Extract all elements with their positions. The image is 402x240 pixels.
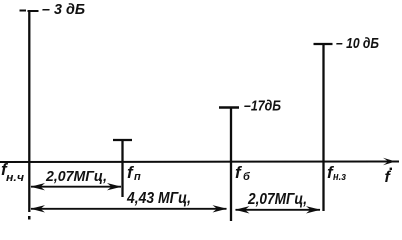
frequency axis [0,161,399,164]
ink dot below fнч line [28,216,31,220]
top bar of fп line [113,139,132,141]
svg-text:б: б [243,171,251,183]
axis arrowhead [383,158,396,165]
dimension arrow 2,07 МГц (fб to fнз) [236,209,321,211]
svg-text:н.з: н.з [333,171,346,183]
dimension arrow 2,07 МГц (fнч to fп) [31,186,121,188]
svg-text:f: f [385,169,392,186]
svg-text:–17дБ: –17дБ [244,98,281,115]
svg-text:4,43 МГц,: 4,43 МГц, [126,190,191,207]
svg-text:н.ч: н.ч [6,172,25,184]
spectral line fб (-17 dB) [230,107,232,221]
svg-text:2,07МГц,: 2,07МГц, [247,191,307,208]
dot over axis label f [390,168,392,170]
dimension arrow 4,43 МГц (fнч to fб) [31,208,227,210]
spectral line fнч (carrier, -3 dB) [28,11,30,212]
svg-text:– 10 дБ: – 10 дБ [336,35,379,52]
spectral line fнз (-10 dB) [322,44,324,211]
svg-text:– 3 дБ: – 3 дБ [42,1,85,18]
top bar of fнч line [20,10,39,13]
spectral line fп [121,140,123,197]
svg-text:п: п [134,171,141,183]
svg-text:f: f [235,163,243,182]
top bar of fб line [219,106,239,108]
svg-text:2,07МГц,: 2,07МГц, [45,168,107,185]
top bar of fнз line [314,43,333,45]
